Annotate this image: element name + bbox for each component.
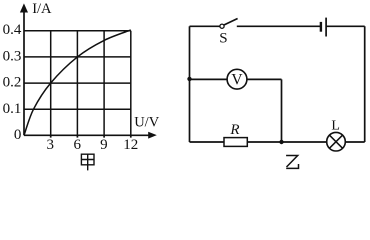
svg-text:S: S	[219, 31, 227, 47]
svg-text:9: 9	[100, 137, 108, 153]
svg-text:0: 0	[14, 127, 22, 143]
svg-text:I/A: I/A	[32, 1, 52, 17]
svg-text:0.4: 0.4	[3, 22, 22, 38]
svg-text:L: L	[331, 119, 340, 134]
svg-text:0.2: 0.2	[3, 75, 22, 91]
svg-text:U/V: U/V	[134, 115, 160, 131]
svg-text:V: V	[231, 71, 243, 88]
svg-text:R: R	[229, 122, 239, 138]
svg-text:6: 6	[73, 137, 81, 153]
svg-text:0.3: 0.3	[3, 48, 22, 64]
svg-text:0.1: 0.1	[3, 101, 22, 117]
svg-text:12: 12	[123, 137, 138, 153]
svg-text:3: 3	[47, 137, 55, 153]
